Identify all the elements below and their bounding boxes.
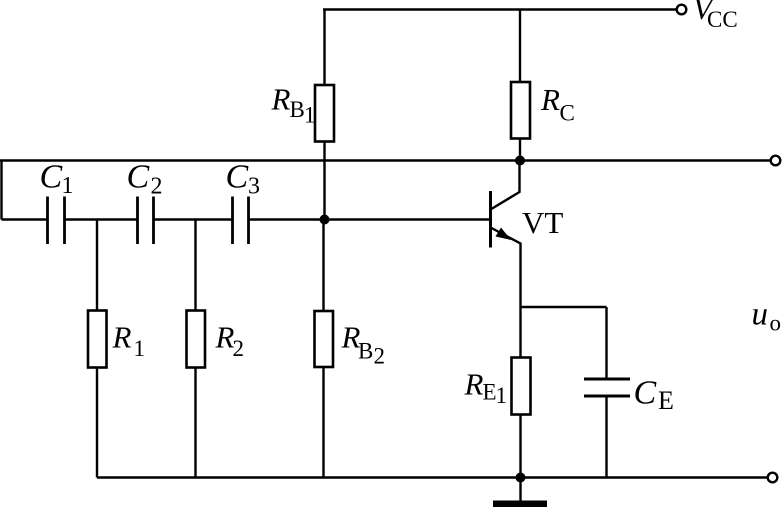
svg-text:C2: C2 xyxy=(127,159,163,200)
capacitor CE xyxy=(584,379,630,396)
wire: left feedback drop xyxy=(0,161,2,220)
wire: RC top lead xyxy=(519,10,521,83)
transistor VT collector lead xyxy=(491,161,520,210)
capacitor C2 xyxy=(138,197,154,245)
svg-text:uo: uo xyxy=(752,297,782,336)
wire: RB2 bottom lead xyxy=(322,367,324,478)
resistor RB2 xyxy=(315,311,334,367)
terminal: output open circle (bottom) xyxy=(768,473,778,483)
node: emitter ground junction dot xyxy=(516,473,526,483)
resistor RE1 xyxy=(512,358,531,415)
terminal: VCC open circle xyxy=(677,5,687,15)
node: collector junction dot xyxy=(515,156,525,166)
wire: segment left edge to C1 xyxy=(2,218,47,220)
wire: RE1 bottom lead xyxy=(519,415,521,478)
svg-text:R1: R1 xyxy=(112,320,146,362)
transistor VT emitter lead xyxy=(491,228,521,308)
svg-text:VT: VT xyxy=(522,205,563,240)
terminal: output open circle (top) xyxy=(771,156,781,166)
svg-text:RB2: RB2 xyxy=(341,319,386,368)
wire: top supply rail xyxy=(323,8,677,10)
wire: RB2 top lead xyxy=(322,220,324,312)
wire: RC bottom lead to collector node xyxy=(519,139,521,161)
wire: emitter branch to CE xyxy=(521,306,607,308)
wire: ground stem xyxy=(519,478,521,502)
wire: RB1 top lead xyxy=(323,10,325,86)
resistor RB1 xyxy=(315,85,334,142)
ground xyxy=(493,501,547,507)
transistor VT base bar xyxy=(489,191,492,248)
wire: segment C1 to C2 xyxy=(66,218,137,220)
wire: CE bottom lead xyxy=(605,396,607,478)
svg-text:R2: R2 xyxy=(215,320,245,362)
transistor VT emitter arrow xyxy=(496,228,512,241)
capacitor C3 xyxy=(233,197,249,245)
resistor R2 xyxy=(187,311,206,368)
wire: RB1 bottom lead to base node xyxy=(323,142,325,220)
svg-text:C3: C3 xyxy=(226,159,261,200)
capacitor C1 xyxy=(48,197,65,245)
wire: R2 bottom lead xyxy=(194,368,196,478)
wire: R1 bottom lead xyxy=(96,368,98,478)
svg-text:C1: C1 xyxy=(40,159,74,200)
wire: segment C3 to transistor base xyxy=(250,218,491,220)
wire: output rail (collector to output terminal) xyxy=(0,159,770,161)
wire: RE1 top lead xyxy=(519,307,521,358)
wire: bottom ground rail xyxy=(97,476,768,478)
resistor RC xyxy=(511,82,530,139)
svg-text:RC: RC xyxy=(540,82,575,126)
wire: R1 top lead xyxy=(96,220,98,311)
svg-text:CE: CE xyxy=(634,375,674,416)
node: base junction dot xyxy=(320,215,330,225)
wire: CE top lead xyxy=(605,307,607,379)
wire: R2 top lead xyxy=(194,220,196,311)
svg-text:RB1: RB1 xyxy=(271,82,316,128)
resistor R1 xyxy=(88,311,107,368)
wire: segment C2 to C3 xyxy=(155,218,232,220)
svg-text:VCC: VCC xyxy=(693,0,738,32)
svg-text:RE1: RE1 xyxy=(464,367,508,409)
